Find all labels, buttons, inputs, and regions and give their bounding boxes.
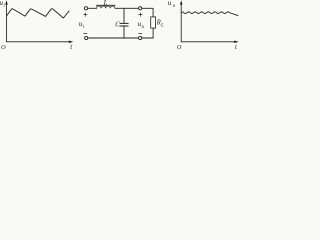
svg-text:O: O bbox=[177, 44, 182, 50]
svg-text:o: o bbox=[173, 3, 176, 9]
svg-text:O: O bbox=[1, 44, 6, 50]
svg-text:L: L bbox=[103, 0, 108, 7]
svg-text:o: o bbox=[142, 24, 145, 30]
svg-text:L: L bbox=[160, 24, 164, 29]
svg-text:C: C bbox=[115, 21, 120, 28]
svg-text:u: u bbox=[168, 0, 172, 7]
